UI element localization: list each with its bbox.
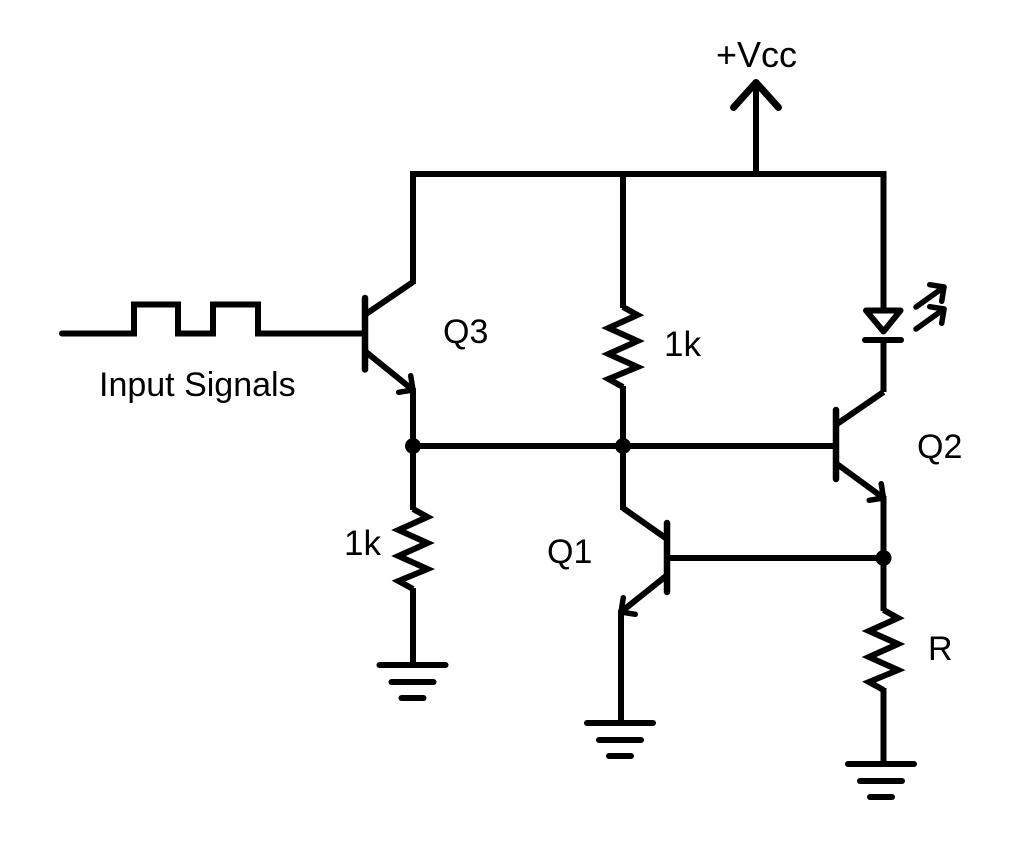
svg-text:Q2: Q2 (917, 428, 962, 466)
wire collector junction row (413, 443, 834, 449)
resistor 1k left (399, 509, 428, 589)
label 1k left (344, 524, 381, 563)
ground under Q1 (587, 723, 653, 756)
label Q3 (443, 313, 488, 351)
power +Vcc symbol (734, 83, 779, 173)
label +Vcc (716, 34, 797, 75)
ground under R (848, 764, 914, 797)
node junction B (615, 438, 631, 454)
wire Q1 base to node (668, 555, 884, 561)
wire rail to R mid (620, 174, 626, 308)
resistor 1k middle (609, 307, 638, 387)
LED D1 (865, 311, 901, 393)
wire R to ground (881, 688, 887, 764)
transistor Q3 emitter (366, 352, 413, 446)
resistor R (869, 610, 898, 690)
wire R left to ground (410, 588, 416, 665)
transistor Q1 base bar (664, 523, 671, 592)
transistor Q3 base bar (362, 298, 369, 370)
label R (928, 630, 953, 668)
label 1k middle (664, 325, 701, 364)
wire node to R (881, 558, 887, 611)
svg-text:1k: 1k (664, 325, 701, 364)
svg-text:R: R (928, 630, 953, 668)
input square-wave signal (62, 305, 362, 334)
ground left (380, 665, 446, 698)
svg-text:Q1: Q1 (547, 533, 592, 571)
wire junction to R left (410, 446, 416, 510)
transistor Q1 collector (623, 446, 667, 539)
svg-text:1k: 1k (344, 524, 381, 563)
transistor Q1 emitter (621, 576, 666, 723)
transistor Q3 collector (366, 171, 413, 314)
node junction C (876, 550, 892, 566)
transistor Q2 collector (837, 392, 884, 424)
LED light arrow lower (916, 307, 944, 329)
label Q2 (917, 428, 962, 466)
svg-text:Input Signals: Input Signals (99, 366, 296, 404)
label Input Signals (99, 366, 296, 404)
wire top power rail (410, 171, 887, 177)
label Q1 (547, 533, 592, 571)
wire R mid to junction (620, 386, 626, 446)
node junction A (405, 438, 421, 454)
svg-text:Q3: Q3 (443, 313, 488, 351)
transistor Q2 base bar (833, 410, 840, 479)
LED light arrow upper (916, 285, 944, 307)
wire rail to LED (881, 171, 887, 311)
svg-text:+Vcc: +Vcc (716, 34, 797, 75)
transistor Q2 emitter (837, 464, 884, 558)
